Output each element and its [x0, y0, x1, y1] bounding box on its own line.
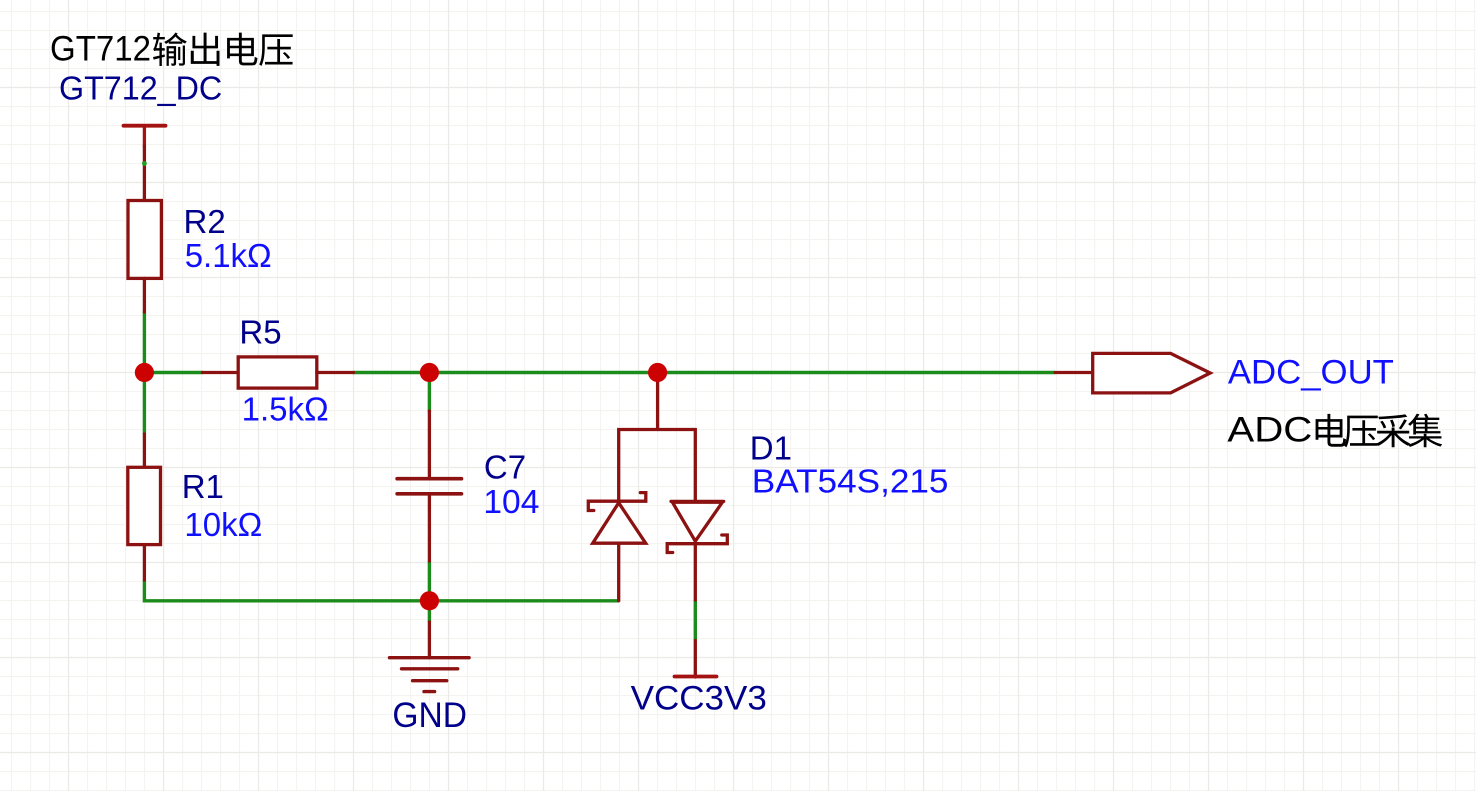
- svg-text:D1: D1: [750, 430, 792, 467]
- svg-text:BAT54S,215: BAT54S,215: [752, 462, 949, 499]
- svg-text:GT712_DC: GT712_DC: [59, 69, 222, 106]
- svg-text:ADC_OUT: ADC_OUT: [1228, 354, 1394, 392]
- svg-text:R1: R1: [182, 468, 224, 505]
- svg-text:R2: R2: [184, 203, 226, 240]
- svg-text:5.1kΩ: 5.1kΩ: [185, 237, 272, 274]
- svg-text:VCC3V3: VCC3V3: [631, 679, 767, 717]
- svg-text:GT712: GT712: [50, 30, 151, 69]
- svg-text:10kΩ: 10kΩ: [184, 506, 262, 543]
- svg-text:104: 104: [483, 483, 539, 520]
- svg-text:R5: R5: [239, 313, 281, 350]
- svg-text:1.5kΩ: 1.5kΩ: [242, 391, 329, 428]
- svg-text:C7: C7: [484, 449, 526, 486]
- svg-text:GND: GND: [392, 696, 467, 735]
- svg-text:ADC: ADC: [1227, 410, 1312, 449]
